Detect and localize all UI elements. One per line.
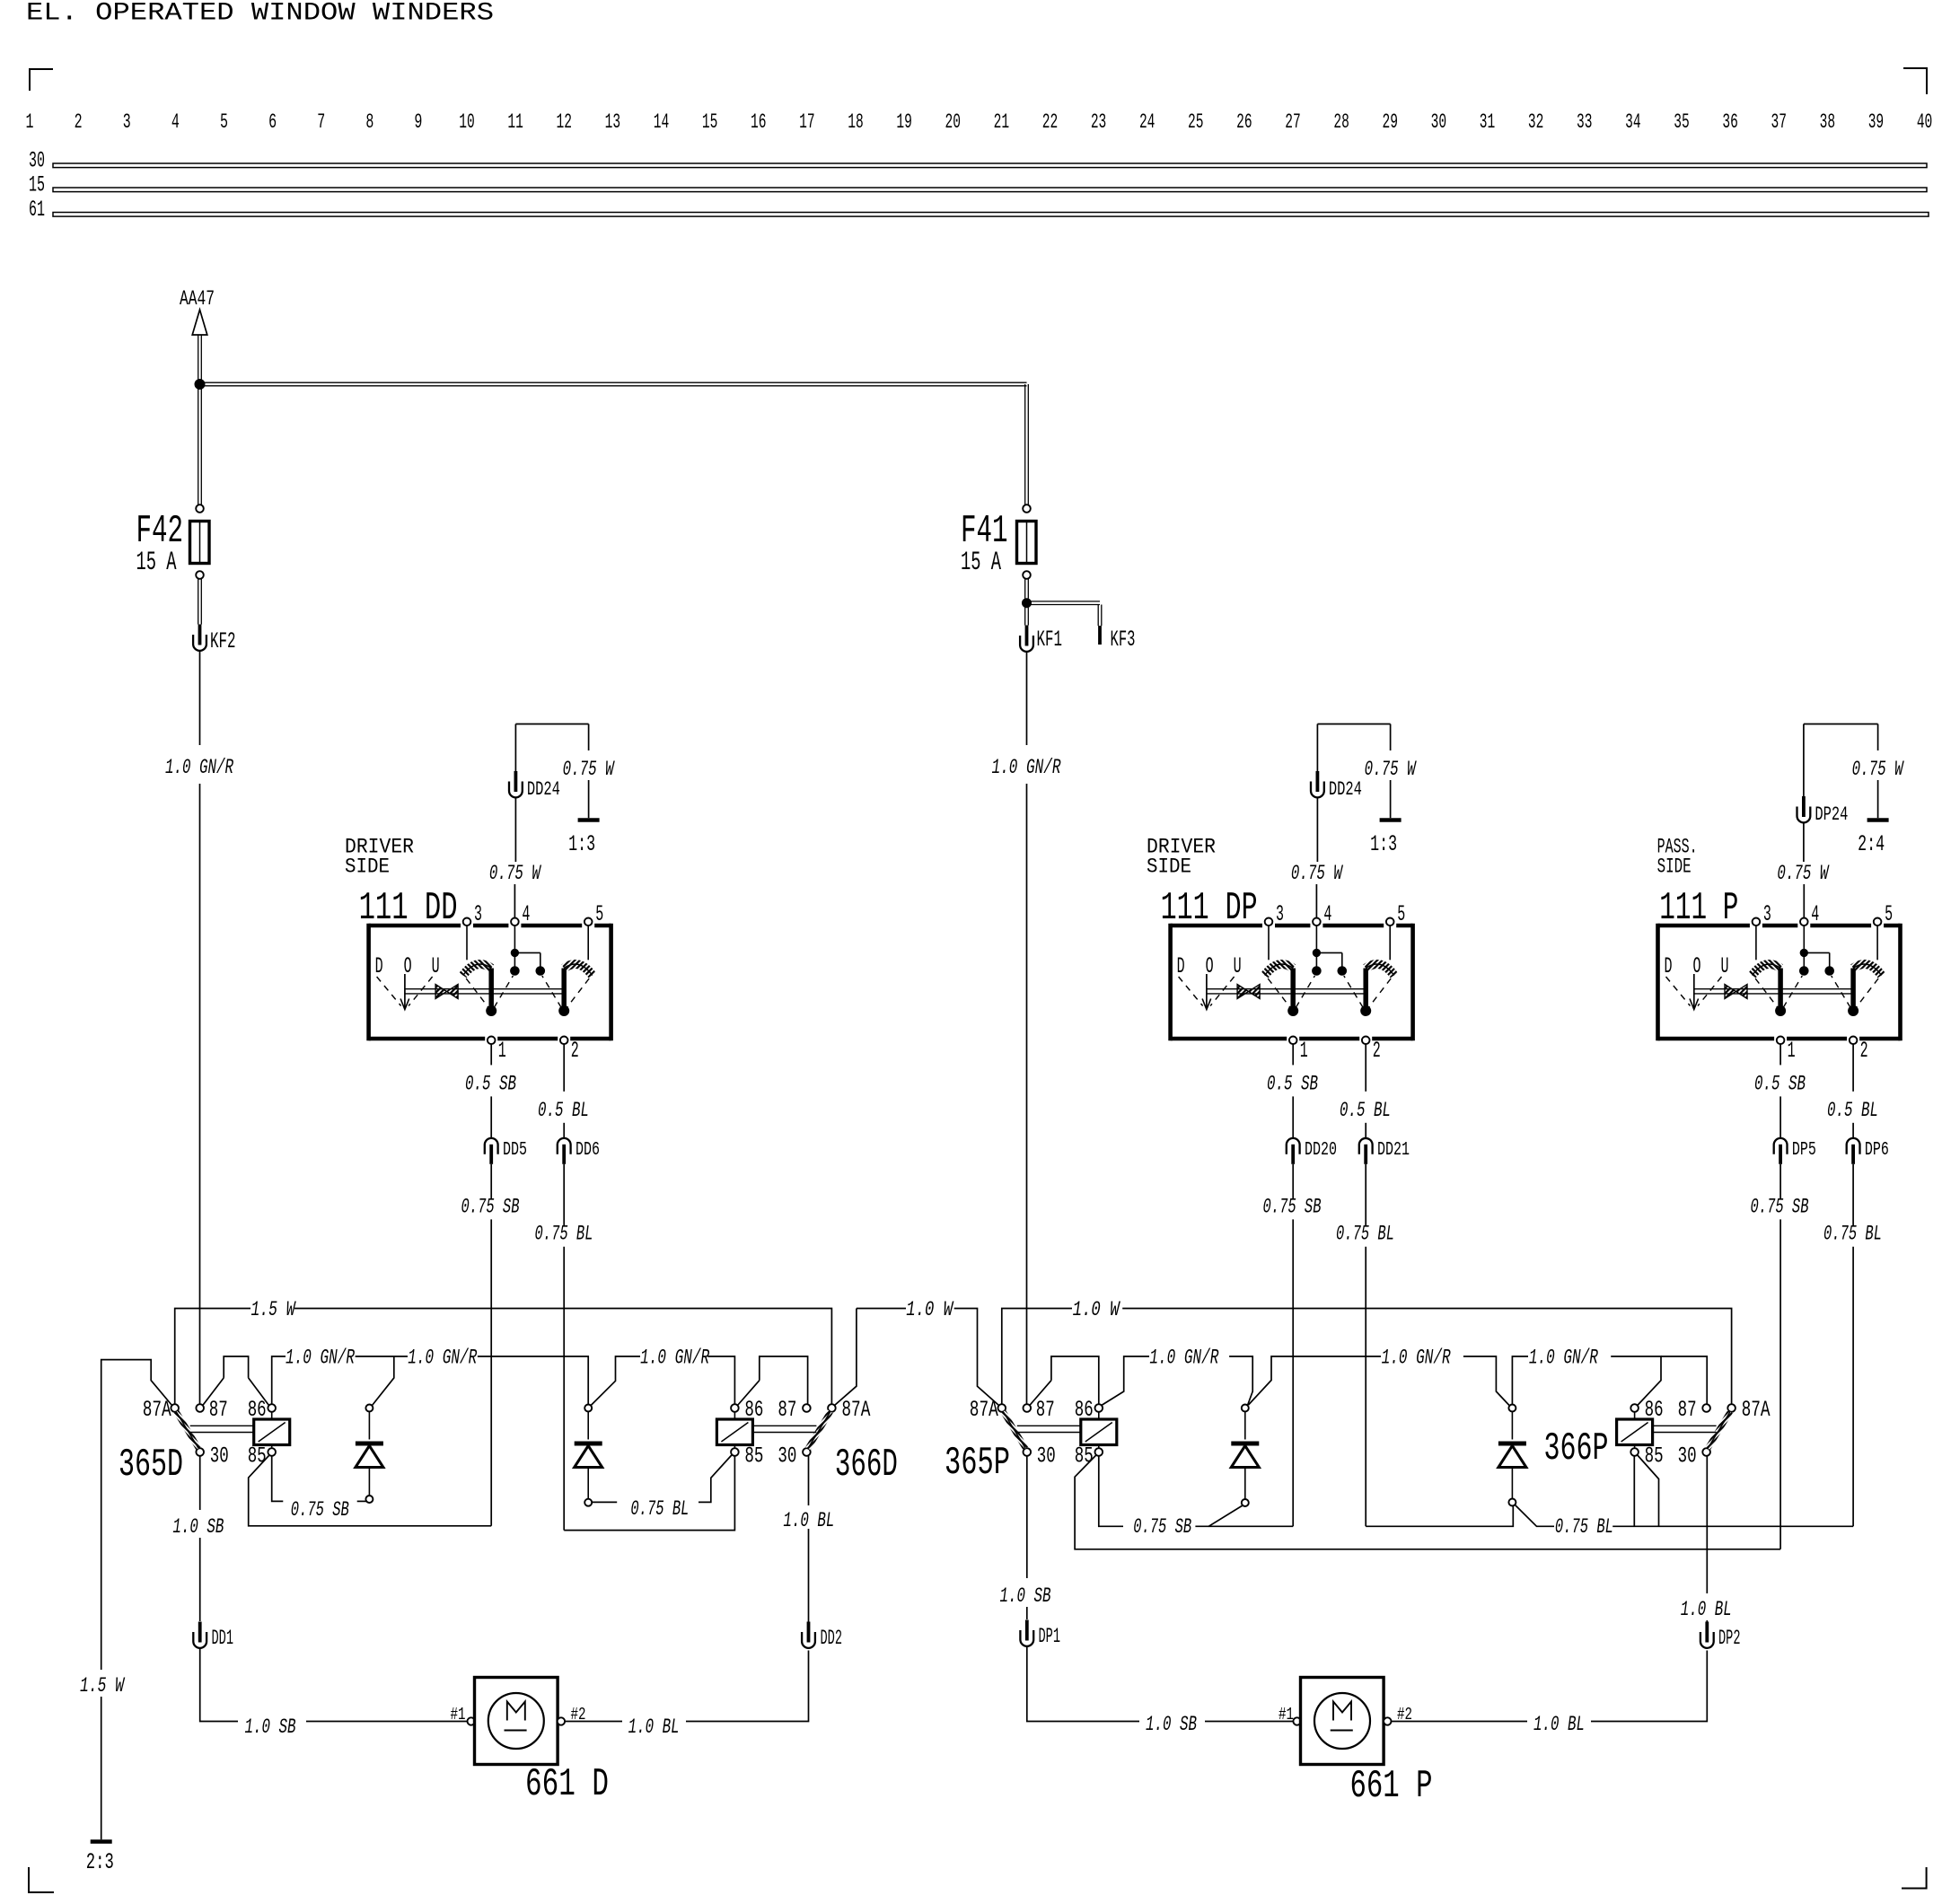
- relay 365D coil: [254, 1419, 290, 1445]
- wire bracket to ground 0.75 W: [1877, 724, 1879, 751]
- switch 111 DP contact 3-1: [1268, 926, 1270, 960]
- svg-text:1.0 GN/R: 1.0 GN/R: [1529, 1347, 1598, 1371]
- switch 111 DD pin 2: [560, 1037, 568, 1045]
- switch 111 DD pin 4: [511, 918, 519, 926]
- svg-text:2: 2: [1373, 1038, 1381, 1064]
- connector DD5: [485, 1138, 498, 1154]
- diode V1 bottom terminal: [365, 1496, 373, 1503]
- svg-text:1.0 GN/R: 1.0 GN/R: [1149, 1347, 1218, 1371]
- svg-text:15: 15: [702, 110, 718, 135]
- svg-text:3: 3: [1763, 901, 1771, 927]
- svg-text:DD6: DD6: [576, 1139, 600, 1161]
- connector DP1: [1025, 1620, 1029, 1641]
- connector DP5: [1774, 1138, 1788, 1154]
- svg-text:30: 30: [210, 1443, 229, 1470]
- svg-text:34: 34: [1625, 110, 1641, 135]
- relay 365P terminal 85: [1095, 1448, 1103, 1456]
- relay 365D terminal 30: [196, 1448, 204, 1456]
- svg-text:0.75 SB: 0.75 SB: [1751, 1195, 1809, 1219]
- svg-text:85: 85: [1075, 1443, 1094, 1470]
- svg-text:5: 5: [595, 901, 603, 927]
- fuse F42 bottom terminal: [196, 571, 204, 579]
- switch 111 P pin 1: [1777, 1037, 1785, 1045]
- svg-text:3: 3: [474, 901, 482, 927]
- svg-text:87: 87: [209, 1397, 228, 1423]
- wire DP1 to motor 1.0 SB: [1027, 1646, 1139, 1722]
- svg-text:365P: 365P: [945, 1441, 1010, 1485]
- ground 2:4: [1867, 818, 1889, 822]
- wire 1.5 W rail to 366D-87A: [294, 1309, 831, 1405]
- svg-text:40: 40: [1917, 110, 1933, 135]
- svg-text:37: 37: [1771, 110, 1787, 135]
- svg-text:DP5: DP5: [1792, 1139, 1816, 1161]
- wire DD2 to 366D-30 1.0 BL: [808, 1529, 810, 1622]
- svg-text:85: 85: [248, 1443, 267, 1470]
- diode V4 bottom terminal: [1508, 1499, 1516, 1506]
- wire 365D-30 down 1.0 SB: [199, 1456, 201, 1510]
- wire 365D-87A riser to 1.5 W rail: [175, 1309, 250, 1405]
- svg-text:14: 14: [654, 110, 670, 135]
- svg-text:DD5: DD5: [503, 1139, 527, 1161]
- svg-text:365D: 365D: [119, 1443, 183, 1487]
- svg-text:23: 23: [1091, 110, 1107, 135]
- svg-text:0.75 BL: 0.75 BL: [630, 1497, 689, 1522]
- svg-text:1.0 BL: 1.0 BL: [1533, 1713, 1585, 1737]
- svg-text:U: U: [432, 953, 440, 979]
- svg-text:0.75 SB: 0.75 SB: [1263, 1195, 1322, 1219]
- switch 111 DD selector arrow: [404, 974, 406, 1009]
- wire 365P-85 to P switch (long 0.75 SB): [1075, 1455, 1780, 1549]
- switch 111 DP actuator bowtie: [1237, 985, 1249, 999]
- svg-text:87A: 87A: [143, 1397, 171, 1423]
- connector DD2: [807, 1622, 811, 1643]
- svg-text:17: 17: [799, 110, 815, 135]
- svg-text:111 P: 111 P: [1659, 886, 1738, 930]
- wire to diode V4: [1463, 1356, 1509, 1406]
- junction dot B: [1023, 599, 1032, 608]
- wire 365D-86 riser: [272, 1356, 286, 1404]
- motor 661 P: [1293, 1717, 1300, 1724]
- svg-text:61: 61: [29, 197, 45, 223]
- relay 366D terminal 85: [731, 1448, 739, 1456]
- svg-text:111 DD: 111 DD: [359, 886, 458, 930]
- svg-text:DD1: DD1: [212, 1627, 234, 1651]
- relay 365D terminal 87A: [171, 1404, 179, 1412]
- switch 111 DD actuator shaft: [405, 988, 564, 990]
- wire DP2 to 366P-30 1.0 BL: [1706, 1620, 1708, 1622]
- wire 365D-87A to ground 1.5 W: [101, 1360, 172, 1670]
- svg-text:22: 22: [1042, 110, 1059, 135]
- svg-text:0.75 SB: 0.75 SB: [1133, 1515, 1191, 1540]
- wire 1.0 W to 365P-87A: [954, 1309, 999, 1406]
- svg-text:87: 87: [1678, 1397, 1697, 1423]
- junction dot A: [195, 380, 205, 390]
- wire diode V3 riser: [1249, 1356, 1382, 1405]
- switch 111 P body: [1658, 924, 1901, 928]
- connector DD1: [198, 1622, 202, 1643]
- svg-text:D: D: [1665, 953, 1673, 979]
- svg-text:0.5 BL: 0.5 BL: [1340, 1099, 1391, 1123]
- relay 366D armature 87A-30: [808, 1412, 830, 1449]
- svg-text:0.75 W: 0.75 W: [1291, 862, 1343, 886]
- switch 111 P actuator shaft: [1694, 988, 1853, 990]
- svg-text:2:4: 2:4: [1858, 831, 1885, 857]
- diode V3: [1244, 1412, 1246, 1440]
- svg-text:#1: #1: [451, 1705, 466, 1724]
- svg-text:1.0 GN/R: 1.0 GN/R: [286, 1347, 355, 1371]
- wire KF1 down 1.0 GN/R: [1026, 652, 1028, 745]
- relay 365P terminal 87: [1024, 1404, 1032, 1412]
- svg-text:0.75 BL: 0.75 BL: [1555, 1515, 1613, 1540]
- relay 366P terminal 30: [1702, 1448, 1710, 1456]
- switch 111 DD body: [369, 924, 611, 928]
- diode V1 top terminal: [365, 1405, 373, 1412]
- switch 111 DP pin 4: [1313, 918, 1321, 926]
- svg-text:SIDE: SIDE: [345, 855, 390, 879]
- svg-text:1.0 GN/R: 1.0 GN/R: [408, 1347, 477, 1371]
- switch 111 P actuator bowtie: [1725, 985, 1736, 999]
- wire 0.5 SB from switch pin: [490, 1044, 492, 1065]
- svg-text:30: 30: [29, 148, 45, 174]
- svg-text:2: 2: [75, 110, 83, 135]
- svg-text:DD20: DD20: [1305, 1139, 1337, 1161]
- svg-text:25: 25: [1188, 110, 1204, 135]
- relay 366D terminal 87: [803, 1404, 811, 1412]
- svg-text:33: 33: [1577, 110, 1593, 135]
- fuse F41 top terminal: [1023, 505, 1031, 513]
- connector DD6: [558, 1138, 571, 1154]
- svg-text:366D: 366D: [835, 1443, 898, 1487]
- bus bar 15: [53, 188, 1927, 192]
- wire 0.5 SB from switch pin: [1779, 1044, 1781, 1065]
- svg-text:18: 18: [848, 110, 864, 135]
- svg-text:20: 20: [945, 110, 961, 135]
- relay 366D terminal 30: [803, 1448, 811, 1456]
- relay 366D terminal 87A: [828, 1404, 836, 1412]
- svg-text:U: U: [1721, 953, 1729, 979]
- svg-text:111 DP: 111 DP: [1161, 886, 1258, 930]
- svg-text:3: 3: [123, 110, 131, 135]
- svg-text:1.0 W: 1.0 W: [906, 1298, 953, 1322]
- switch 111 P pin 2: [1850, 1037, 1858, 1045]
- switch 111 DP pin 1: [1289, 1037, 1297, 1045]
- wire to 366P-86: [1611, 1356, 1661, 1406]
- svg-text:87A: 87A: [841, 1397, 870, 1423]
- switch 111 DD pin 4 contacts: [514, 926, 515, 950]
- fuse F41 bottom terminal: [1023, 571, 1031, 579]
- wire 365P 87-86 staple: [1051, 1356, 1099, 1404]
- relay 365D terminal 87: [196, 1404, 204, 1412]
- svg-text:24: 24: [1139, 110, 1156, 135]
- svg-text:1.0 BL: 1.0 BL: [1681, 1598, 1732, 1622]
- svg-text:1.0 SB: 1.0 SB: [1000, 1584, 1051, 1609]
- svg-text:DP2: DP2: [1718, 1627, 1741, 1651]
- svg-text:1.0 GN/R: 1.0 GN/R: [992, 756, 1061, 780]
- switch 111 P pin 5: [1874, 918, 1882, 926]
- switch 111 DD pin 3: [463, 918, 471, 926]
- svg-text:0.5 SB: 0.5 SB: [1267, 1072, 1318, 1096]
- svg-text:0.75 BL: 0.75 BL: [1336, 1223, 1394, 1247]
- switch 111 DP pin 3: [1265, 918, 1273, 926]
- bus bar 30: [53, 163, 1927, 168]
- wire 0.75 from DD21: [1365, 1164, 1366, 1226]
- svg-text:1:3: 1:3: [1370, 831, 1397, 857]
- connector DP2: [1705, 1622, 1709, 1643]
- connector KF2: [198, 625, 202, 645]
- svg-text:2:3: 2:3: [86, 1849, 114, 1875]
- svg-text:1: 1: [498, 1038, 506, 1064]
- wire bracket to ground 0.75 W: [1390, 724, 1392, 751]
- svg-text:SIDE: SIDE: [1657, 855, 1692, 879]
- switch 111 DP contact 5-2: [1389, 926, 1391, 960]
- svg-text:4: 4: [1811, 901, 1819, 927]
- relay 365P terminal 86: [1095, 1404, 1103, 1412]
- svg-text:15: 15: [29, 172, 45, 198]
- svg-text:1:3: 1:3: [568, 831, 595, 857]
- connector KF1: [1025, 626, 1029, 646]
- bus bar 61: [53, 213, 1929, 217]
- svg-text:1: 1: [26, 110, 34, 135]
- wire bracket over switch 111 DD: [515, 724, 588, 725]
- wire 365D 87-86 staple: [224, 1356, 248, 1378]
- svg-text:DP1: DP1: [1039, 1625, 1061, 1649]
- ground 1:3: [1380, 818, 1402, 822]
- svg-text:31: 31: [1480, 110, 1496, 135]
- column number ruler 1-40: [26, 110, 1933, 135]
- svg-text:DD21: DD21: [1377, 1139, 1410, 1161]
- wire bracket over switch 111 P: [1804, 724, 1878, 725]
- relay 365P terminal 87A: [998, 1404, 1006, 1412]
- wire motor 661P #2 to DP2 1.0 BL: [1392, 1721, 1527, 1723]
- switch 111 DD actuator bowtie: [435, 985, 447, 999]
- wire junction to KF1 (double): [1024, 608, 1026, 626]
- switch 111 DD pin 5: [584, 918, 593, 926]
- svg-text:0.75 W: 0.75 W: [1852, 758, 1904, 782]
- wire to 366D-86: [707, 1356, 734, 1404]
- wire junction to KF3 (double): [1028, 601, 1100, 602]
- svg-text:1: 1: [1788, 1038, 1796, 1064]
- wire junction down to F42 (double): [198, 389, 199, 505]
- relay 366P armature 87A-30: [1708, 1412, 1730, 1449]
- svg-text:DP6: DP6: [1865, 1139, 1889, 1161]
- svg-text:39: 39: [1868, 110, 1885, 135]
- svg-text:1.5 W: 1.5 W: [251, 1298, 296, 1322]
- svg-text:32: 32: [1528, 110, 1544, 135]
- wire bracket to ground 0.75 W: [588, 724, 590, 751]
- svg-text:87: 87: [778, 1397, 796, 1423]
- relay 366P terminal 87A: [1727, 1404, 1735, 1412]
- svg-text:366P: 366P: [1544, 1426, 1609, 1470]
- svg-text:28: 28: [1333, 110, 1349, 135]
- wire 0.75 from DD6: [563, 1164, 565, 1226]
- svg-text:DD2: DD2: [821, 1627, 843, 1651]
- wire 366P 86-87 staple: [1661, 1356, 1707, 1404]
- svg-text:2: 2: [1860, 1038, 1868, 1064]
- relay 365P actuator link: [1017, 1425, 1081, 1426]
- wire diode V2 riser to 366D: [591, 1356, 640, 1406]
- wire 365D-85 to switch column 0.75 SB: [249, 1456, 492, 1526]
- relay 365P armature 87A-30: [1003, 1412, 1025, 1449]
- switch 111 DP selector arrow: [1206, 974, 1208, 1009]
- switch 111 P contact 5-2: [1876, 926, 1878, 960]
- svg-text:87: 87: [1036, 1397, 1055, 1423]
- svg-text:9: 9: [414, 110, 422, 135]
- wire 365D-85 to diode V1 0.75 SB: [272, 1456, 284, 1501]
- svg-text:KF2: KF2: [210, 628, 236, 654]
- svg-text:5: 5: [220, 110, 228, 135]
- wire 365P-87A riser to 1.0 W rail: [1002, 1309, 1072, 1405]
- svg-text:1.0 BL: 1.0 BL: [628, 1715, 680, 1740]
- wire KF2 down 1.0 GN/R: [199, 651, 201, 745]
- svg-text:38: 38: [1820, 110, 1836, 135]
- svg-text:0.5 SB: 0.5 SB: [465, 1072, 516, 1096]
- svg-text:4: 4: [1323, 901, 1331, 927]
- svg-text:30: 30: [1431, 110, 1447, 135]
- svg-text:15 A: 15 A: [136, 547, 177, 577]
- svg-text:7: 7: [317, 110, 325, 135]
- wire bracket over switch 111 DP: [1317, 724, 1390, 725]
- svg-text:D: D: [1177, 953, 1185, 979]
- svg-text:6: 6: [268, 110, 277, 135]
- switch 111 P pin 3: [1753, 918, 1761, 926]
- svg-text:D: D: [375, 953, 383, 979]
- diode V2 bottom terminal: [584, 1499, 592, 1506]
- wire DP24 to switch 0.75 W: [1803, 823, 1805, 863]
- svg-text:4: 4: [522, 901, 530, 927]
- svg-text:29: 29: [1383, 110, 1399, 135]
- wire 0.5 SB from switch pin: [1292, 1044, 1294, 1065]
- relay 366P terminal 85: [1630, 1448, 1639, 1456]
- svg-text:10: 10: [459, 110, 475, 135]
- wire AA47 to junction (double): [198, 335, 199, 380]
- ground 1:3: [578, 818, 600, 822]
- wire 1.0 W rail to 366P-87A: [1122, 1309, 1731, 1405]
- svg-text:19: 19: [896, 110, 912, 135]
- svg-text:11: 11: [507, 110, 523, 135]
- wire diode V4 to 366P-85 0.75 BL: [1516, 1505, 1555, 1527]
- connector DD24: [514, 771, 518, 792]
- connector DD20: [1287, 1138, 1300, 1154]
- wire 366D-85 to switch column: [564, 1456, 734, 1531]
- svg-text:#1: #1: [1279, 1705, 1294, 1724]
- svg-text:8: 8: [365, 110, 373, 135]
- wire 366D-85 to diode V2 0.75 BL: [699, 1455, 732, 1502]
- fuse F41: [1017, 522, 1037, 564]
- relay 365D actuator link: [190, 1425, 254, 1426]
- svg-text:27: 27: [1285, 110, 1301, 135]
- diode V3 top terminal: [1242, 1405, 1249, 1412]
- svg-text:661 D: 661 D: [525, 1762, 609, 1806]
- motor 661 D: [468, 1717, 475, 1724]
- wire 0.5 BL from switch pin: [1365, 1044, 1366, 1092]
- wire 366P-85 risers: [1633, 1456, 1635, 1526]
- switch 111 DP actuator shaft: [1207, 988, 1366, 990]
- svg-text:36: 36: [1722, 110, 1738, 135]
- svg-text:21: 21: [994, 110, 1010, 135]
- svg-text:87A: 87A: [1742, 1397, 1771, 1423]
- svg-text:DP24: DP24: [1815, 803, 1848, 826]
- relay 366P coil: [1617, 1419, 1653, 1445]
- svg-text:30: 30: [1678, 1443, 1697, 1470]
- svg-text:26: 26: [1236, 110, 1252, 135]
- svg-text:0.75 SB: 0.75 SB: [461, 1195, 520, 1219]
- relay 365P coil: [1081, 1419, 1117, 1445]
- switch 111 DP pin 5: [1386, 918, 1394, 926]
- svg-text:1.5 W: 1.5 W: [80, 1674, 125, 1698]
- svg-text:5: 5: [1397, 901, 1405, 927]
- connector DD21: [1359, 1138, 1373, 1154]
- fuse F42 top terminal: [196, 505, 204, 513]
- wire 365P-85 to DP switch 0.75 SB: [1099, 1456, 1123, 1526]
- wire DP pin2 to diode V4 0.75 BL: [1366, 1506, 1513, 1527]
- svg-text:661 P: 661 P: [1350, 1764, 1433, 1808]
- diode V1: [368, 1412, 370, 1440]
- svg-text:1: 1: [1300, 1038, 1308, 1064]
- relay 365P terminal 30: [1024, 1448, 1032, 1456]
- relay 366D terminal 86: [731, 1404, 739, 1412]
- ground 2:3: [91, 1839, 112, 1844]
- switch 111 DD contact 5-2: [587, 926, 589, 960]
- wire junction to F41 branch (double horizontal): [200, 382, 1027, 383]
- wire 365P-86 to 1.0 GN/R: [1102, 1356, 1149, 1406]
- svg-text:1.0 GN/R: 1.0 GN/R: [165, 756, 233, 780]
- svg-text:30: 30: [1037, 1443, 1056, 1470]
- relay 365D terminal 85: [268, 1448, 276, 1456]
- connector DP24: [1802, 796, 1806, 817]
- connector DP6: [1847, 1138, 1860, 1154]
- svg-text:U: U: [1234, 953, 1242, 979]
- relay 366P terminal 87: [1702, 1404, 1710, 1412]
- svg-text:0.5 BL: 0.5 BL: [1827, 1099, 1878, 1123]
- wire 365P-30 down 1.0 SB: [1026, 1456, 1028, 1578]
- svg-text:EL. OPERATED WINDOW WINDERS: EL. OPERATED WINDOW WINDERS: [26, 0, 494, 28]
- diode V4 top terminal: [1508, 1405, 1516, 1412]
- wire to diode V2: [478, 1356, 588, 1405]
- relay 366P actuator link: [1653, 1425, 1717, 1426]
- svg-text:KF1: KF1: [1037, 627, 1063, 653]
- svg-text:KF3: KF3: [1111, 627, 1136, 653]
- svg-text:1.0 SB: 1.0 SB: [172, 1515, 224, 1540]
- svg-text:3: 3: [1276, 901, 1284, 927]
- svg-text:15 A: 15 A: [961, 547, 1001, 577]
- svg-text:5: 5: [1885, 901, 1893, 927]
- wire 366D 86-87 staple: [760, 1356, 808, 1404]
- svg-text:0.75 W: 0.75 W: [489, 862, 541, 886]
- svg-text:DD24: DD24: [1329, 778, 1362, 801]
- wire 366D-87A second riser: [835, 1309, 857, 1406]
- relay 365D terminal 86: [268, 1404, 276, 1412]
- svg-text:0.75 BL: 0.75 BL: [535, 1223, 593, 1247]
- relay 366P terminal 86: [1630, 1404, 1639, 1412]
- svg-text:0.75 W: 0.75 W: [563, 758, 615, 782]
- switch 111 DD pin 1: [488, 1037, 496, 1045]
- relay 366D coil: [716, 1419, 752, 1445]
- svg-text:0.75 BL: 0.75 BL: [1823, 1223, 1882, 1247]
- svg-text:1.0 W: 1.0 W: [1073, 1298, 1120, 1322]
- relay 365D armature 87A-30: [176, 1412, 198, 1449]
- svg-text:35: 35: [1674, 110, 1690, 135]
- switch 111 DD contact 3-1: [466, 926, 468, 960]
- svg-text:AA47: AA47: [180, 287, 215, 311]
- wire 0.5 BL from switch pin: [1852, 1044, 1854, 1092]
- svg-text:0.75 W: 0.75 W: [1365, 758, 1417, 782]
- wire motor 661D #2 to DD2 1.0 BL: [565, 1721, 622, 1723]
- switch 111 DP pin 2: [1362, 1037, 1370, 1045]
- svg-text:87A: 87A: [970, 1397, 998, 1423]
- svg-text:12: 12: [557, 110, 573, 135]
- svg-text:DD24: DD24: [527, 778, 560, 801]
- wire DD1 to motor 1.0 SB: [200, 1648, 238, 1722]
